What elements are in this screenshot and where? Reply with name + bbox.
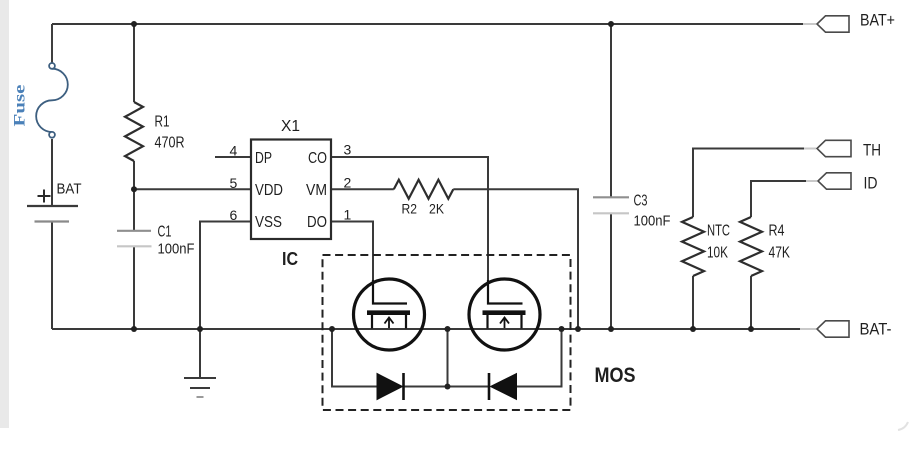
pin number 1 [344,207,352,223]
svg-text:BAT+: BAT+ [860,11,895,30]
diode D1 [377,373,404,400]
svg-text:DP: DP [255,150,272,167]
terminal BAT- [817,321,849,337]
svg-text:TH: TH [863,141,881,160]
wire CO pin 3 to Q2 gate [331,157,488,304]
svg-text:5: 5 [230,175,238,191]
op-amp U1 IC box X1 [251,140,331,240]
svg-text:2: 2 [344,175,352,191]
wire fuse top stub [51,24,53,63]
label C3 value [634,193,671,230]
pin name DP [255,150,272,167]
svg-text:MOS: MOS [595,364,636,387]
wire BAT- rail [52,328,800,330]
pin number 6 [230,207,238,223]
wire diode loop right [517,329,562,387]
wire C3 to rail [610,214,612,329]
node rail VM [575,326,581,332]
node top rail C3 [608,21,614,27]
svg-text:R1: R1 [155,114,170,131]
label R1 value [155,114,185,152]
svg-text:IC: IC [282,248,298,269]
wire DO pin 1 to Q1 gate [331,222,373,304]
wire VM pin 2 to R2 [331,188,394,190]
terminal ID [818,173,851,189]
svg-text:470R: 470R [155,135,185,152]
MOS dashed box [323,255,571,410]
label BAT [57,181,82,198]
wire R1 bottom to C1 [133,161,135,230]
pin number 3 [344,142,352,158]
thermistor NTC [682,217,704,276]
node rail ground [197,326,203,332]
transistor Q1 [354,279,425,350]
pin name VM [306,182,327,199]
label Fuse [12,85,29,127]
wire diode loop left [332,329,377,387]
node rail C3 [608,326,614,332]
pin name VDD [255,182,283,199]
svg-text:ID: ID [864,174,878,193]
svg-text:CO: CO [308,150,327,167]
svg-text:Fuse: Fuse [12,85,29,127]
svg-text:DO: DO [307,214,327,231]
resistor R2 [394,180,454,199]
wire VSS pin 6 to ground [200,222,251,379]
svg-text:47K: 47K [769,245,791,262]
pin number 4 [230,143,238,159]
label R2 value [402,202,445,217]
svg-text:BAT-: BAT- [860,320,892,339]
svg-text:100nF: 100nF [158,241,195,258]
node top rail R1 [131,21,137,27]
pin name CO [308,150,327,167]
svg-text:2K: 2K [429,202,444,217]
capacitor C3 [593,197,629,213]
capacitor C1 [117,231,152,247]
svg-text:6: 6 [230,207,238,223]
svg-text:4: 4 [230,143,238,159]
label C1 value [158,224,195,258]
label MOS [595,364,636,387]
wire VDD pin 5 [134,188,251,190]
svg-text:1: 1 [344,207,352,223]
wire fuse to battery [51,139,53,205]
svg-text:C1: C1 [158,224,172,241]
label ID [864,174,878,193]
wire D1 to D2 [403,386,489,388]
svg-text:3: 3 [344,142,352,158]
svg-text:10K: 10K [707,245,728,262]
svg-text:BAT: BAT [57,181,82,198]
label NTC value [707,223,730,262]
node rail diode left [329,326,335,332]
label R4 value [769,223,791,262]
svg-text:R2: R2 [402,202,418,217]
node rail diode right [559,326,565,332]
label IC [282,248,298,269]
pin name DO [307,214,327,231]
wire R2 to rail [453,189,578,329]
label BAT- [860,320,892,339]
wire BAT- terminal stub [800,328,816,330]
wire battery to BAT- rail [51,222,53,329]
svg-text:VDD: VDD [255,182,283,199]
battery plus sign [38,190,51,203]
diode D2 [489,373,517,400]
wire ID terminal stub [806,180,817,182]
pin name VSS [255,214,282,231]
corner artifact [898,422,908,430]
resistor R1 [125,102,143,161]
wire C3 column top [610,24,612,197]
svg-text:X1: X1 [281,118,300,135]
node rail center tap [445,326,451,332]
wire R4 to rail [750,276,752,329]
svg-text:C3: C3 [634,193,648,210]
wire R1 column top [133,24,135,102]
fuse F1 [36,63,68,138]
label X1 [281,118,300,135]
pin number 2 [344,175,352,191]
node diode line tap [445,384,451,390]
wire NTC to rail [692,276,694,329]
pin number 5 [230,175,238,191]
label BAT+ [860,11,895,30]
node rail C1 [131,326,137,332]
wire ID to R4 [751,181,806,217]
wire TH to NTC [693,149,804,218]
svg-text:R4: R4 [769,223,785,240]
node rail R4 [748,326,754,332]
node VDD R1 C1 [131,186,137,192]
wire diode loop center tap [447,329,449,387]
wire C1 to rail [133,247,135,329]
wire BAT+ terminal stub [803,23,816,25]
svg-text:VM: VM [306,182,327,199]
svg-text:100nF: 100nF [634,213,671,230]
label TH [863,141,881,160]
wire top rail BAT+ [52,23,803,25]
ground [184,378,216,397]
svg-text:NTC: NTC [707,223,730,240]
terminal TH [817,140,851,156]
resistor R4 [740,217,762,276]
battery BAT [27,206,78,222]
wire TH terminal stub [804,148,816,150]
transistor Q2 [469,279,540,350]
terminal BAT+ [817,16,849,32]
node rail NTC [690,326,696,332]
wire DP pin 4 stub [215,156,251,158]
svg-text:VSS: VSS [255,214,282,231]
